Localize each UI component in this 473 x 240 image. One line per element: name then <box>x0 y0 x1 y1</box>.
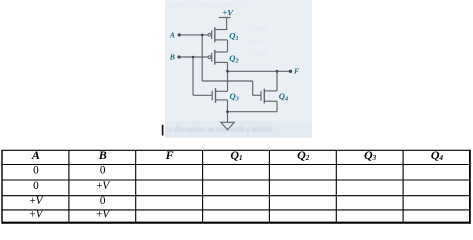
svg-text:Q3: Q3 <box>230 91 239 103</box>
svg-text:nr tahd: nr tahd <box>246 25 267 33</box>
svg-text:F: F <box>165 148 174 162</box>
svg-text:Q4: Q4 <box>279 91 288 103</box>
svg-text:0: 0 <box>33 165 39 177</box>
svg-text:+V: +V <box>96 180 110 192</box>
svg-text:0: 0 <box>33 180 39 192</box>
svg-text:+V: +V <box>29 209 43 221</box>
svg-text:+V: +V <box>96 209 110 221</box>
svg-text:b tasd: b tasd <box>250 49 267 57</box>
svg-text:0: 0 <box>100 195 106 207</box>
svg-text:+V: +V <box>222 7 234 17</box>
svg-text:A: A <box>169 30 175 39</box>
svg-text:F: F <box>294 67 300 76</box>
svg-text:for lcu: for lcu <box>248 37 267 45</box>
svg-text:Q2: Q2 <box>229 53 238 65</box>
svg-text:B: B <box>98 148 107 162</box>
svg-text:warot rlov mba notamae vtl: warot rlov mba notamae vtl <box>168 1 246 9</box>
svg-text:B: B <box>169 53 175 62</box>
svg-text:is discussion on noitausib a b: is discussion on noitausib a bubble <box>167 125 273 134</box>
svg-text:A: A <box>31 148 40 162</box>
svg-text:Q1: Q1 <box>229 30 238 42</box>
svg-text:0: 0 <box>100 165 106 177</box>
svg-text:+V: +V <box>29 195 43 207</box>
